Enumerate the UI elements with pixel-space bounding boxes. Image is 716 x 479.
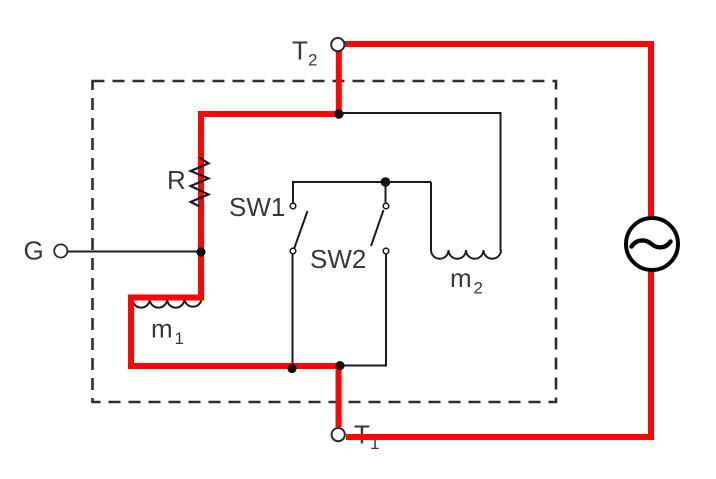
SW1 top terminal xyxy=(290,203,296,209)
svg-text:m: m xyxy=(151,314,173,344)
wire switch top rail xyxy=(293,181,431,183)
svg-text:SW2: SW2 xyxy=(310,244,366,274)
wire SW2 bottom vertical and bottom link xyxy=(342,254,386,366)
junction top node xyxy=(334,109,344,119)
SW2 top terminal xyxy=(383,203,389,209)
dashed enclosure box xyxy=(93,81,557,402)
svg-text:SW1: SW1 xyxy=(229,192,285,222)
wire G to node xyxy=(68,251,201,253)
SW1 bottom terminal xyxy=(290,248,296,254)
SW2 bottom terminal xyxy=(383,248,389,254)
AC source xyxy=(626,218,678,270)
inductor m1 xyxy=(133,299,202,308)
red wire outer loop T2 to source to T1 xyxy=(343,44,651,437)
junction SW1 bottom node xyxy=(287,364,296,373)
wire SW1 bottom vertical xyxy=(292,254,294,366)
red wire inner path T1 up through m1, R, to T2 xyxy=(131,51,339,427)
svg-text:R: R xyxy=(167,165,186,195)
terminal G xyxy=(54,244,67,257)
wire m2 left terminal up to switch rail xyxy=(430,182,432,250)
terminal T1 xyxy=(332,428,345,441)
SW1 blade xyxy=(294,211,308,249)
svg-text:1: 1 xyxy=(175,329,184,348)
SW2 blade xyxy=(371,210,384,246)
junction switch rail node xyxy=(381,177,391,187)
wire top node to m2 right terminal xyxy=(339,113,501,250)
resistor R xyxy=(191,158,209,207)
wire SW2 top stub xyxy=(385,181,387,203)
svg-text:m: m xyxy=(450,263,472,293)
svg-text:2: 2 xyxy=(308,51,317,70)
junction G node xyxy=(196,247,205,256)
svg-text:2: 2 xyxy=(474,279,483,298)
svg-text:T: T xyxy=(292,36,308,66)
terminal T2 xyxy=(331,38,344,51)
junction red corner node xyxy=(335,361,344,370)
wire SW1 top stub xyxy=(292,181,294,203)
svg-text:G: G xyxy=(24,236,44,266)
inductor m2 xyxy=(431,250,501,259)
